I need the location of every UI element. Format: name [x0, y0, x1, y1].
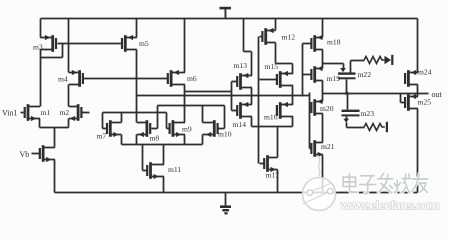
svg-text:m16: m16: [264, 113, 278, 122]
svg-text:m23: m23: [361, 109, 375, 118]
svg-text:www.elecfans.com: www.elecfans.com: [340, 199, 440, 213]
svg-text:m11: m11: [168, 165, 181, 174]
svg-text:m17: m17: [266, 171, 280, 180]
svg-text:m3: m3: [33, 43, 43, 52]
svg-text:m1: m1: [41, 108, 51, 117]
svg-text:m19: m19: [327, 74, 341, 83]
svg-text:m25: m25: [418, 98, 432, 107]
svg-text:out: out: [432, 90, 443, 99]
svg-text:m4: m4: [58, 74, 68, 83]
svg-text:m24: m24: [418, 68, 432, 77]
svg-text:m8: m8: [150, 133, 160, 142]
svg-text:m9: m9: [182, 124, 192, 133]
svg-text:m10: m10: [218, 130, 232, 139]
svg-text:m22: m22: [358, 70, 372, 79]
svg-text:m21: m21: [321, 142, 335, 151]
svg-text:m5: m5: [139, 39, 149, 48]
svg-text:m13: m13: [234, 61, 248, 70]
svg-text:m14: m14: [233, 120, 247, 129]
svg-text:m18: m18: [327, 37, 341, 46]
svg-text:m20: m20: [320, 104, 334, 113]
svg-text:m7: m7: [97, 132, 107, 141]
svg-text:Vb: Vb: [20, 150, 30, 159]
svg-text:m15: m15: [265, 62, 279, 71]
svg-text:m12: m12: [282, 33, 296, 42]
svg-text:m2: m2: [60, 108, 70, 117]
svg-text:m6: m6: [187, 74, 197, 83]
svg-text:Vin1: Vin1: [2, 108, 18, 117]
